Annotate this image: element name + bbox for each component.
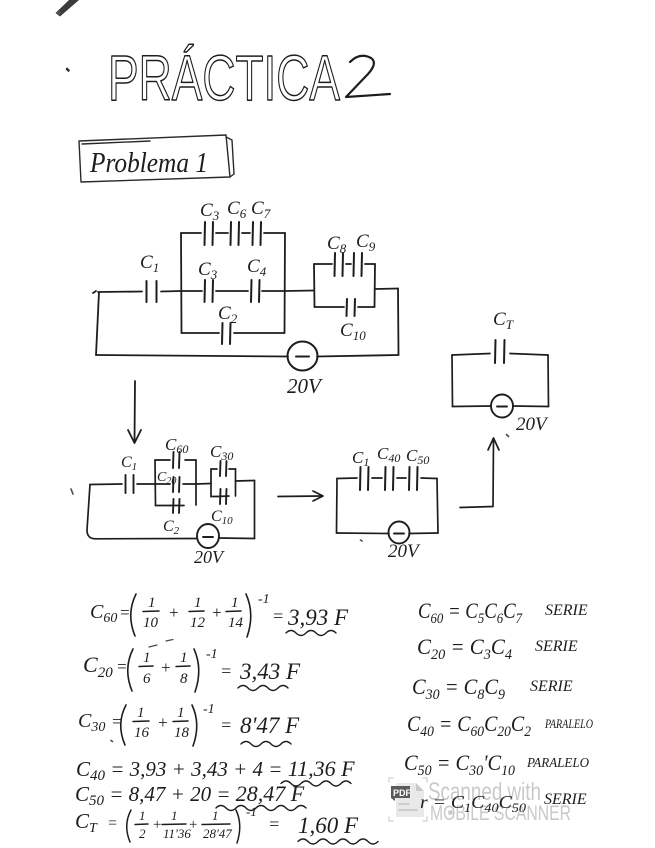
Problema 1 box: [79, 135, 234, 182]
fraction bars C20: [139, 665, 190, 668]
formula C30: [78, 702, 300, 741]
wire right box bottom branch: [315, 306, 375, 308]
svg-text:8: 8: [180, 671, 188, 687]
note C20 serie: [417, 634, 578, 663]
svg-text:=: =: [268, 814, 280, 834]
svg-text:C1: C1: [352, 448, 369, 469]
svg-text:SERIE: SERIE: [530, 678, 573, 695]
svg-text:=: =: [107, 815, 118, 832]
svg-text:C3: C3: [200, 200, 220, 223]
capacitor C60: [173, 452, 180, 468]
label C6: [227, 198, 247, 221]
svg-text:C1: C1: [140, 252, 159, 275]
svg-text:+: +: [211, 603, 222, 622]
svg-text:C20 = C3C4: C20 = C3C4: [417, 634, 512, 663]
svg-text:2: 2: [139, 826, 146, 841]
wavy underline 8'47F: [241, 742, 291, 747]
svg-text:C50: C50: [406, 446, 429, 467]
title numeral 2: [346, 56, 390, 97]
label C8: [327, 233, 347, 256]
svg-text:1: 1: [143, 650, 151, 666]
svg-text:C50 = C30'C10: C50 = C30'C10: [404, 750, 515, 779]
label C60: [165, 435, 188, 456]
capacitor C6: [231, 222, 240, 245]
wire right rail 3: [437, 479, 438, 534]
svg-text:+: +: [160, 658, 171, 677]
box1 outline: [155, 460, 196, 506]
svg-text:+: +: [152, 817, 162, 833]
svg-text:r = C1C40C50: r = C1C40C50: [420, 792, 527, 815]
svg-text:1: 1: [177, 705, 185, 721]
svg-text:PARALELO: PARALELO: [526, 756, 589, 771]
capacitor C5 (labelled C3): [205, 222, 214, 245]
wire right rail: [397, 289, 400, 356]
svg-text:C60 = C5C6C7: C60 = C5C6C7: [418, 598, 523, 627]
note CT serie: [420, 791, 587, 815]
capacitor C50: [409, 467, 418, 490]
wire main left 2: [90, 483, 122, 486]
svg-text:=: =: [220, 715, 232, 735]
svg-text:CT: CT: [75, 809, 98, 836]
wire right box to right rail: [375, 288, 398, 291]
label C1 (2nd): [121, 454, 137, 473]
svg-text:20V: 20V: [388, 541, 421, 562]
arrow up L-shaped: [460, 438, 499, 508]
title PRACTICA: [108, 42, 340, 114]
capacitor C4: [251, 280, 260, 302]
svg-text:C2: C2: [218, 303, 238, 326]
label C7: [251, 198, 271, 221]
Problema 1 text: [89, 147, 208, 179]
capacitor C2 (2nd): [173, 499, 180, 513]
svg-text:C7: C7: [251, 198, 271, 221]
right parallel box right edge: [374, 264, 377, 307]
node A: left end of main wire: [93, 291, 96, 293]
note C40 paralelo: [407, 711, 593, 740]
label C50: [406, 446, 429, 467]
svg-text:C30 = C8C9: C30 = C8C9: [412, 674, 505, 703]
wire top rail CT: [452, 354, 548, 356]
label C10: [340, 320, 366, 343]
svg-text:1: 1: [139, 808, 146, 823]
svg-text:C60: C60: [90, 601, 117, 626]
svg-text:10: 10: [143, 615, 159, 631]
svg-text:+: +: [157, 713, 168, 732]
svg-text:C20: C20: [157, 470, 176, 487]
wire left rail 3: [336, 479, 339, 534]
svg-text:14: 14: [228, 615, 244, 631]
svg-text:C40 = C60C20C2: C40 = C60C20C2: [407, 711, 531, 740]
fraction bars CT: [135, 823, 230, 826]
svg-text:6: 6: [143, 671, 151, 687]
svg-text:1: 1: [231, 595, 239, 611]
source V1 20V: [288, 342, 318, 371]
svg-text:C3: C3: [198, 259, 218, 282]
svg-text:1: 1: [171, 808, 178, 823]
svg-text:C4: C4: [247, 256, 267, 279]
wire left rail 2: [87, 485, 96, 539]
label C30: [210, 442, 233, 463]
wire bottom rail 3: [337, 532, 439, 535]
watermark mobile scanner: [430, 802, 571, 825]
svg-text:SERIE: SERIE: [545, 602, 588, 619]
formula C50: [75, 781, 305, 809]
label C2 (2nd): [163, 518, 180, 537]
label C3 (middle branch): [198, 259, 218, 282]
svg-text:+: +: [168, 603, 179, 622]
wire bottom rail: [96, 355, 399, 357]
wire middle box to right box: [285, 290, 314, 293]
arrow down: [128, 381, 141, 443]
label C3 (top branch): [200, 200, 220, 223]
svg-text:-1: -1: [258, 592, 270, 607]
svg-text:1: 1: [212, 808, 219, 823]
formula C60: [90, 592, 349, 631]
wire right rail CT: [547, 355, 550, 407]
formula CT: [75, 804, 359, 841]
svg-text:C10: C10: [340, 320, 366, 343]
label C40: [377, 444, 400, 465]
watermark scanned with: [428, 778, 541, 806]
label C1 (3rd): [352, 448, 369, 469]
svg-text:28'47: 28'47: [203, 826, 232, 841]
svg-text:12: 12: [190, 615, 206, 631]
svg-text:-1: -1: [246, 804, 257, 819]
svg-text:3,43 F: 3,43 F: [239, 659, 301, 684]
svg-text:C60: C60: [165, 435, 188, 456]
wire bottom branch: [182, 332, 285, 334]
wire mid branch box1: [155, 483, 196, 485]
svg-text:C30: C30: [210, 442, 233, 463]
svg-text:=: =: [119, 603, 130, 622]
wire main left: [98, 291, 142, 294]
fraction bars C30: [133, 720, 188, 723]
capacitor C30: [220, 461, 227, 476]
svg-text:C2: C2: [163, 518, 180, 537]
right parallel box left edge: [313, 264, 316, 307]
label C9: [356, 231, 376, 254]
svg-text:3,93 F: 3,93 F: [287, 605, 349, 630]
fraction bars C60: [143, 610, 241, 613]
svg-text:=: =: [116, 657, 127, 676]
wire top rail 3: [337, 477, 437, 480]
parens C20: [128, 649, 199, 692]
svg-text:C50 = 8,47 + 20 = 28,47 F: C50 = 8,47 + 20 = 28,47 F: [75, 781, 305, 809]
wire top branch: [181, 232, 285, 234]
source V4 20V: [491, 395, 513, 418]
wire box2 to right rail 2: [236, 480, 255, 483]
svg-text:-1: -1: [203, 702, 215, 717]
svg-text:C10: C10: [211, 508, 233, 527]
stray pen specks: [71, 435, 509, 742]
parens CT: [127, 810, 240, 843]
formula C20: [83, 647, 301, 687]
svg-text:1: 1: [180, 650, 188, 666]
capacitor C2: [222, 323, 231, 344]
svg-text:SERIE: SERIE: [544, 791, 587, 808]
svg-text:=: =: [220, 661, 232, 681]
svg-text:1: 1: [137, 705, 145, 721]
value 20V (CT): [516, 414, 549, 435]
svg-text:PARALELO: PARALELO: [544, 717, 593, 731]
capacitor C20: [173, 477, 180, 492]
capacitor C1 (2nd): [126, 475, 134, 493]
box2 outline: [211, 469, 236, 497]
wavy underline 3,43F: [238, 686, 288, 691]
capacitor C7: [253, 222, 262, 245]
wavy underline 28,47F: [216, 806, 306, 811]
wire right rail 2: [254, 481, 256, 539]
capacitor C9: [354, 253, 363, 276]
svg-text:PRÁCTICA: PRÁCTICA: [108, 42, 340, 114]
capacitor C1 (3rd): [360, 467, 369, 490]
capacitor CT: [495, 340, 505, 363]
label C2: [218, 303, 238, 326]
svg-text:CT: CT: [493, 309, 514, 332]
note C60 serie: [418, 598, 588, 627]
svg-text:C40: C40: [377, 444, 400, 465]
svg-text:1: 1: [194, 595, 202, 611]
svg-text:20V: 20V: [516, 414, 549, 435]
wire C1 to box: [161, 290, 181, 293]
capacitor C1: [147, 281, 157, 302]
value 20V: [287, 374, 323, 398]
svg-text:C40 = 3,93 + 3,43 + 4 = 11,36: C40 = 3,93 + 3,43 + 4 = 11,36 F: [76, 756, 355, 784]
value 20V (2nd): [194, 547, 225, 567]
middle parallel box right edge: [284, 233, 287, 333]
label C10 (2nd): [211, 508, 233, 527]
formula C40: [76, 756, 355, 784]
arrow right: [278, 491, 323, 501]
wire left rail CT: [451, 355, 454, 407]
capacitor C10: [347, 299, 356, 316]
label CT: [493, 309, 514, 332]
svg-text:Problema 1: Problema 1: [89, 147, 208, 179]
capacitor C3 (middle branch): [205, 280, 214, 302]
wavy underline 11,36F: [281, 781, 351, 786]
note C30 serie: [412, 674, 573, 703]
label C1: [140, 252, 159, 275]
wavy underline 1,60F: [298, 839, 378, 844]
source V2 20V: [197, 524, 219, 548]
svg-text:-1: -1: [206, 647, 218, 662]
wire C1 to box1: [137, 483, 155, 485]
capacitor C40: [385, 467, 394, 490]
PDF icon: [389, 778, 427, 821]
wire middle branch: [181, 290, 285, 292]
svg-text:C6: C6: [227, 198, 247, 221]
wire box1 to box2: [196, 483, 211, 486]
svg-text:1: 1: [148, 595, 156, 611]
wire bottom rail 2: [96, 537, 255, 540]
svg-text:C20: C20: [83, 652, 113, 681]
source V3 20V: [389, 522, 410, 544]
svg-text:=: =: [272, 606, 284, 626]
wire right box top branch: [314, 263, 375, 265]
wire bottom rail CT: [453, 405, 549, 408]
value 20V (3rd): [388, 541, 421, 562]
wavy underline 3,93F: [286, 631, 336, 636]
svg-text:SERIE: SERIE: [535, 638, 578, 655]
svg-text:+: +: [188, 817, 198, 833]
svg-text:1,60 F: 1,60 F: [298, 813, 359, 838]
label C20: [157, 470, 176, 487]
parens C30: [121, 705, 197, 746]
svg-text:16: 16: [134, 725, 150, 741]
label C4: [247, 256, 267, 279]
corner pen mark top-left: [56, 0, 80, 71]
svg-text:8'47 F: 8'47 F: [240, 713, 300, 738]
wire left rail: [96, 292, 99, 355]
svg-text:C8: C8: [327, 233, 347, 256]
svg-text:PDF: PDF: [393, 788, 412, 798]
parens C60: [131, 594, 251, 637]
capacitor C8: [335, 253, 344, 276]
svg-text:C1: C1: [121, 454, 137, 473]
svg-text:C30: C30: [78, 710, 105, 735]
svg-text:18: 18: [174, 725, 190, 741]
note C50 paralelo: [404, 750, 589, 779]
svg-text:20V: 20V: [194, 547, 225, 567]
capacitor C10 (2nd): [220, 489, 227, 504]
middle parallel box left edge: [180, 233, 183, 333]
svg-text:20V: 20V: [287, 374, 323, 398]
svg-text:C9: C9: [356, 231, 376, 254]
